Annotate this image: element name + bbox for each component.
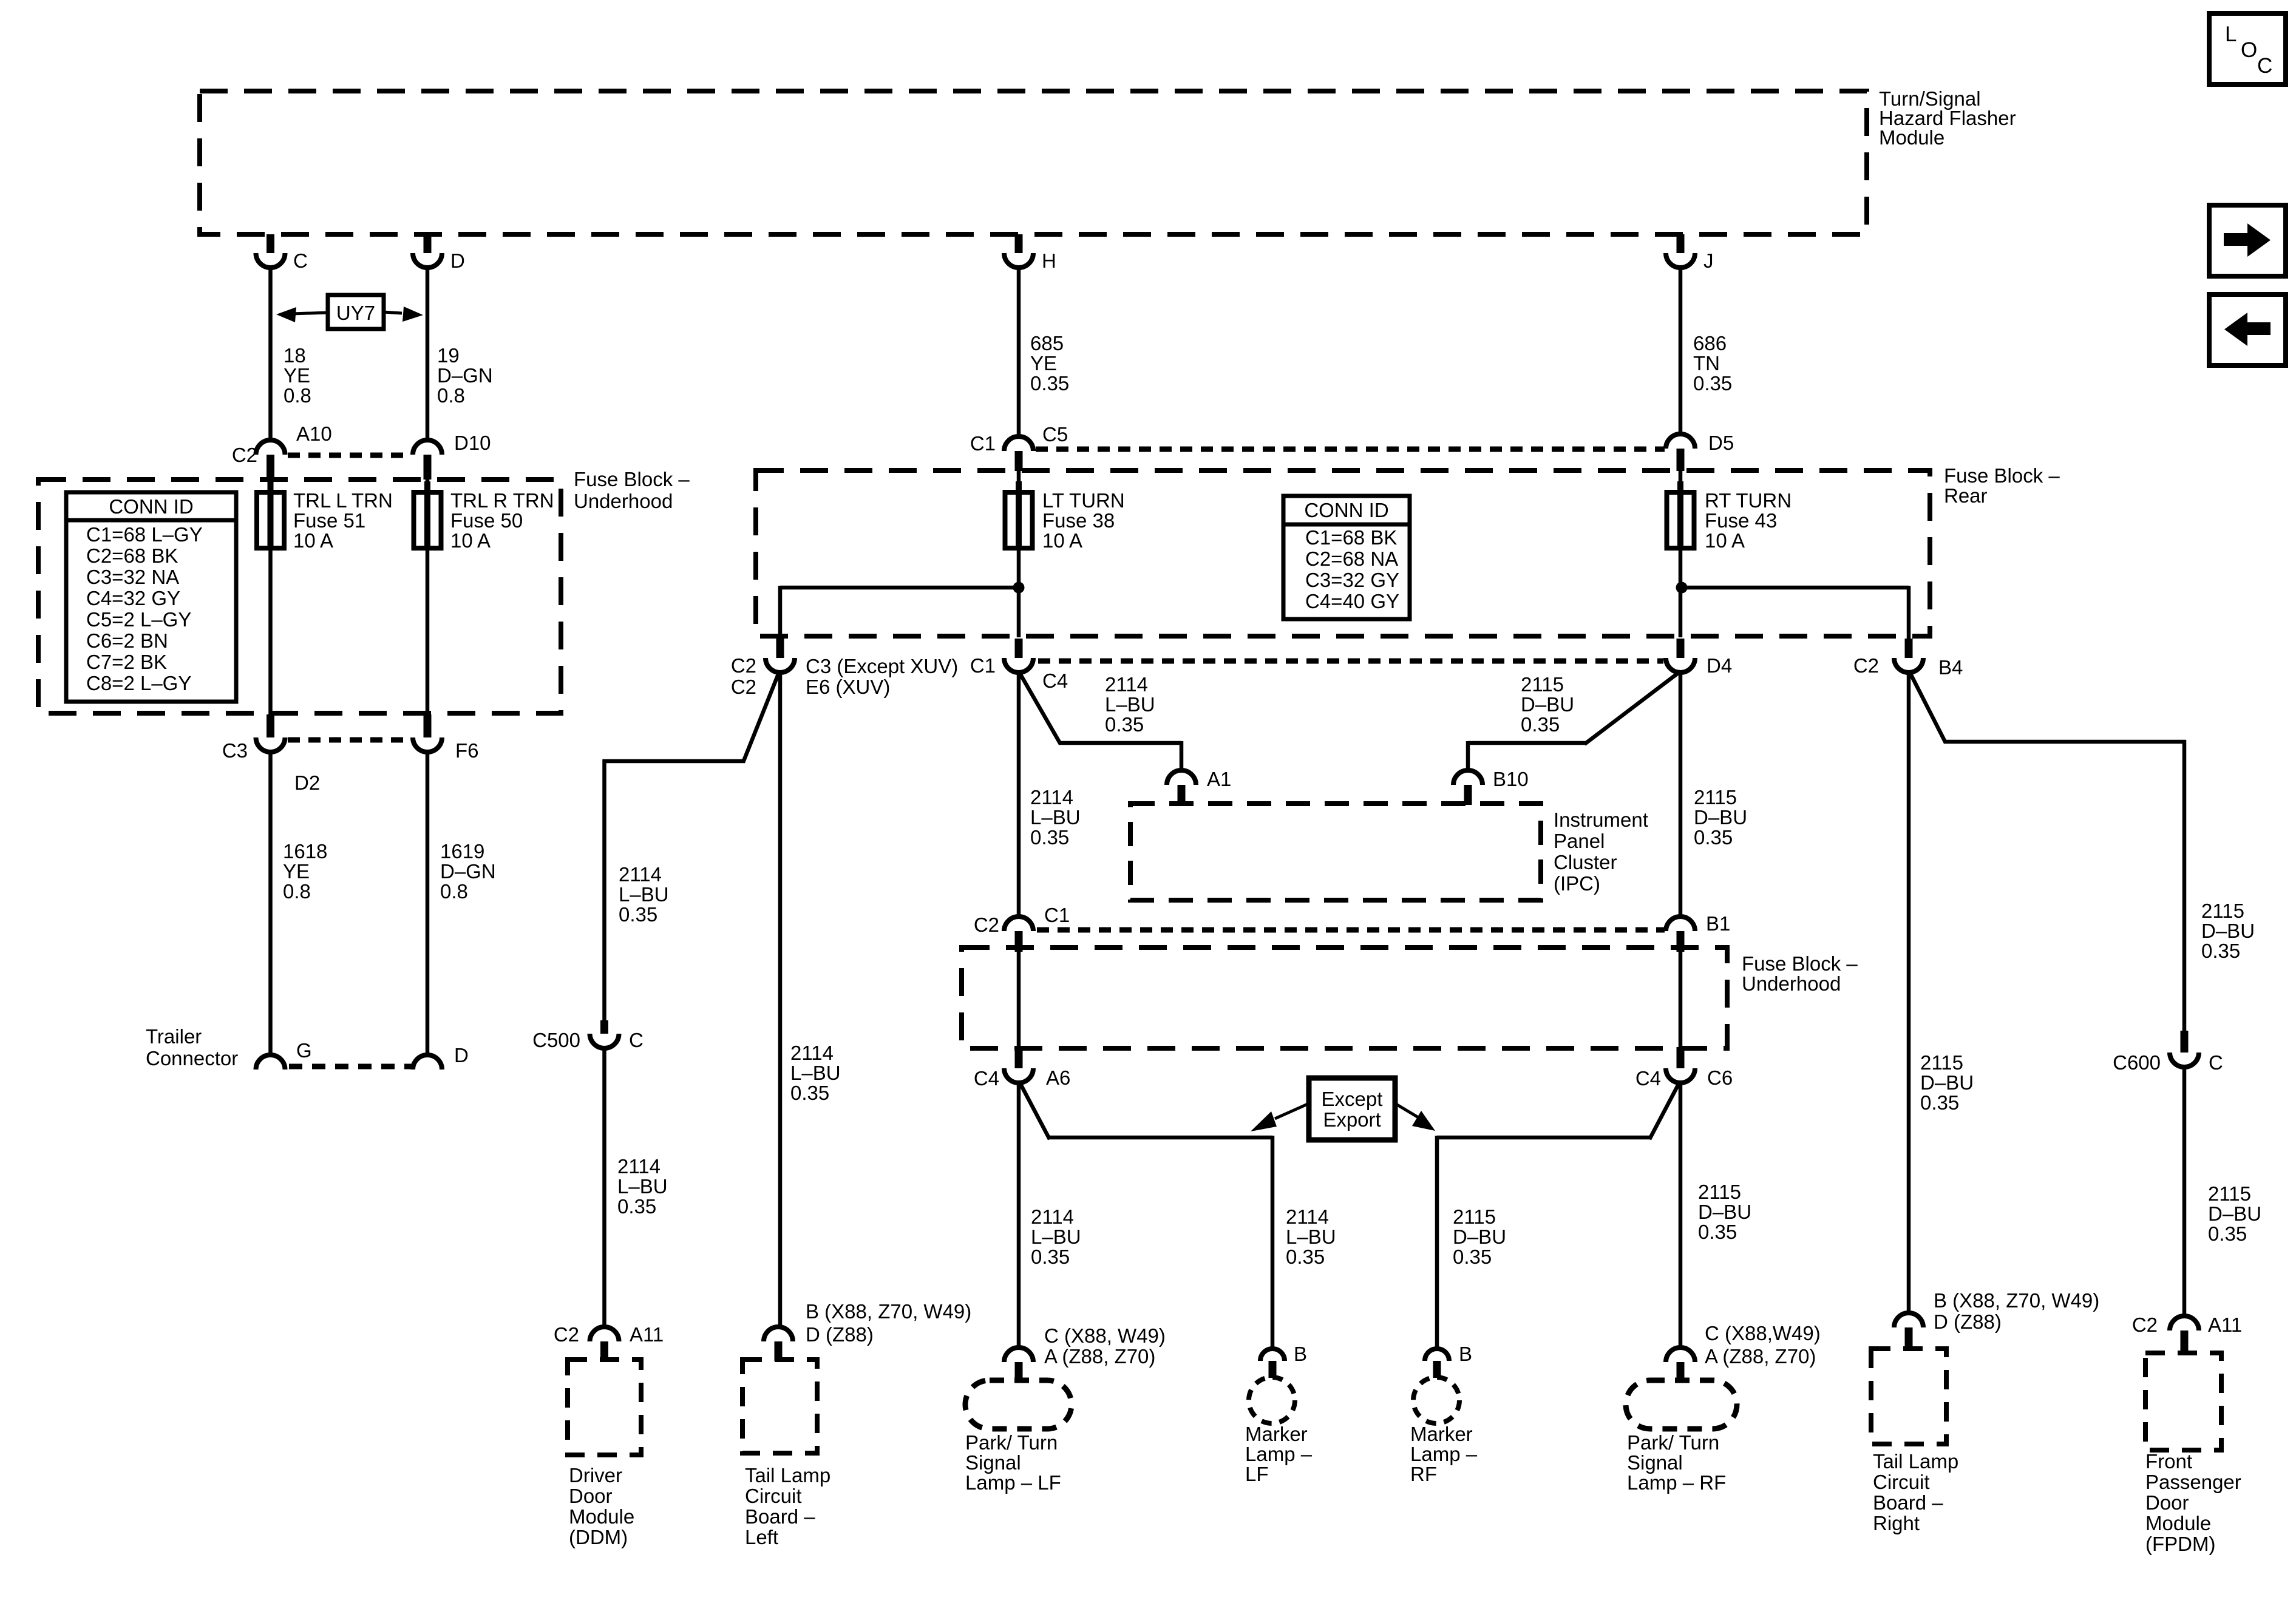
wire B4 slant to C600 column bbox=[1910, 673, 1946, 743]
svg-text:C5=2 L–GY: C5=2 L–GY bbox=[86, 608, 191, 631]
svg-text:L–BU: L–BU bbox=[617, 1175, 668, 1198]
connector C2/A11 (FPDM) bbox=[2170, 1316, 2199, 1331]
svg-text:Passenger: Passenger bbox=[2145, 1471, 2241, 1493]
svg-text:C4=32 GY: C4=32 GY bbox=[86, 587, 180, 609]
svg-text:C2: C2 bbox=[974, 914, 999, 936]
connector C4/C6 bbox=[1677, 1047, 1685, 1068]
svg-text:C: C bbox=[293, 249, 308, 272]
fuse block underhood box (left) bbox=[38, 480, 561, 713]
wire C2 straight to tail lamp left bbox=[778, 673, 783, 1328]
left-turn arrow bbox=[2224, 313, 2271, 346]
connector line G-D bbox=[289, 1064, 412, 1070]
connector C3/D2 bbox=[267, 714, 274, 737]
svg-text:D (Z88): D (Z88) bbox=[1934, 1310, 2002, 1333]
svg-text:Park/ Turn: Park/ Turn bbox=[1627, 1431, 1719, 1454]
svg-text:D5: D5 bbox=[1708, 432, 1734, 454]
svg-text:L–BU: L–BU bbox=[1105, 693, 1155, 716]
svg-text:D: D bbox=[450, 249, 465, 272]
wire C600 to FPDM bbox=[2182, 1067, 2187, 1317]
svg-text:B4: B4 bbox=[1938, 656, 1963, 679]
svg-text:Circuit: Circuit bbox=[1873, 1471, 1930, 1493]
svg-text:0.35: 0.35 bbox=[1920, 1091, 1959, 1114]
svg-text:A (Z88, Z70): A (Z88, Z70) bbox=[1705, 1345, 1816, 1368]
wire H inside mid fuse block bbox=[1017, 951, 1021, 1047]
svg-text:Module: Module bbox=[2145, 1512, 2211, 1534]
CONN ID table (rear) bbox=[1283, 496, 1410, 619]
svg-text:Lamp – RF: Lamp – RF bbox=[1627, 1471, 1726, 1494]
connector C2/D10 bbox=[413, 440, 442, 455]
wire D upper segment bbox=[426, 268, 430, 440]
svg-text:D–BU: D–BU bbox=[1453, 1225, 1506, 1248]
svg-text:0.35: 0.35 bbox=[619, 903, 657, 926]
wire C6 to marker RF bbox=[1649, 1083, 1679, 1139]
connector C1/C5 bbox=[1004, 436, 1033, 451]
svg-text:RF: RF bbox=[1410, 1463, 1437, 1485]
connector A1 bbox=[1167, 770, 1196, 785]
fuse 43 RT TURN bbox=[1667, 492, 1694, 548]
fuse block rear box bbox=[756, 470, 1930, 636]
svg-text:D–BU: D–BU bbox=[1694, 806, 1747, 829]
wire through fuse 43 bbox=[1679, 471, 1683, 637]
connector C2/B4 (rear) bbox=[1905, 639, 1913, 658]
svg-text:B (X88, Z70, W49): B (X88, Z70, W49) bbox=[1934, 1289, 2099, 1312]
connector C4/A6 bbox=[1015, 1047, 1023, 1068]
svg-text:RT TURN: RT TURN bbox=[1705, 489, 1792, 512]
svg-text:10 A: 10 A bbox=[450, 529, 491, 552]
svg-text:2114: 2114 bbox=[1105, 673, 1148, 696]
svg-text:B10: B10 bbox=[1493, 768, 1529, 790]
svg-text:Signal: Signal bbox=[1627, 1451, 1683, 1474]
svg-text:Except: Except bbox=[1322, 1088, 1383, 1110]
svg-text:C6=2 BN: C6=2 BN bbox=[86, 629, 168, 652]
svg-text:C (X88,W49): C (X88,W49) bbox=[1705, 1322, 1821, 1344]
wire C4 to A1 bbox=[1019, 671, 1061, 744]
svg-text:Connector: Connector bbox=[146, 1047, 238, 1070]
svg-text:Tail Lamp: Tail Lamp bbox=[745, 1464, 830, 1486]
svg-text:J: J bbox=[1703, 249, 1714, 272]
svg-text:Fuse Block –: Fuse Block – bbox=[574, 468, 690, 490]
svg-text:D–BU: D–BU bbox=[1920, 1071, 1974, 1094]
svg-text:Door: Door bbox=[569, 1485, 613, 1507]
svg-text:A11: A11 bbox=[2208, 1314, 2242, 1336]
wire A6 to park/turn LF bbox=[1017, 1083, 1021, 1349]
fuse 51 TRL L TRN bbox=[257, 492, 284, 548]
svg-text:2115: 2115 bbox=[1920, 1051, 1963, 1074]
svg-text:Marker: Marker bbox=[1245, 1423, 1308, 1445]
svg-text:CONN ID: CONN ID bbox=[1304, 499, 1388, 521]
svg-text:Module: Module bbox=[1879, 126, 1944, 149]
connector park/turn RF bbox=[1666, 1347, 1695, 1362]
svg-text:C: C bbox=[629, 1029, 644, 1051]
svg-text:C4: C4 bbox=[1042, 670, 1068, 692]
svg-text:(IPC): (IPC) bbox=[1554, 872, 1600, 895]
svg-text:D (Z88): D (Z88) bbox=[806, 1323, 874, 1346]
svg-text:B (X88, Z70, W49): B (X88, Z70, W49) bbox=[806, 1300, 971, 1323]
marker lamp RF outline bbox=[1413, 1377, 1459, 1423]
junction on fuse 38 output bbox=[1013, 582, 1025, 594]
connector C2/C1 (underhood mid) bbox=[1004, 917, 1033, 931]
svg-text:Underhood: Underhood bbox=[1742, 972, 1841, 995]
svg-text:C3: C3 bbox=[222, 739, 248, 762]
module pin C connector bbox=[267, 234, 274, 253]
Except Export right arrow bbox=[1395, 1103, 1419, 1118]
svg-text:C (X88, W49): C (X88, W49) bbox=[1044, 1324, 1166, 1347]
svg-text:Marker: Marker bbox=[1410, 1423, 1473, 1445]
connector B10 bbox=[1453, 770, 1483, 785]
fuse 38 LT TURN bbox=[1005, 492, 1033, 548]
UY7 right arrow bbox=[384, 312, 402, 313]
svg-text:Fuse 50: Fuse 50 bbox=[450, 509, 523, 532]
svg-text:C8=2 L–GY: C8=2 L–GY bbox=[86, 672, 191, 694]
connector line C5-D5 bbox=[1036, 447, 1665, 452]
svg-text:Fuse 51: Fuse 51 bbox=[293, 509, 365, 532]
IPC box bbox=[1130, 804, 1541, 900]
svg-text:0.35: 0.35 bbox=[1453, 1246, 1492, 1268]
svg-text:B1: B1 bbox=[1706, 912, 1730, 935]
svg-text:C2: C2 bbox=[2132, 1314, 2158, 1336]
svg-text:Signal: Signal bbox=[965, 1451, 1021, 1474]
connector park/turn LF bbox=[1004, 1347, 1033, 1362]
svg-text:0.8: 0.8 bbox=[437, 384, 465, 407]
wire C upper segment bbox=[268, 268, 273, 440]
svg-text:C1: C1 bbox=[1044, 904, 1070, 926]
connector C2/A10 bbox=[256, 440, 285, 455]
wire J inside mid fuse block bbox=[1679, 951, 1683, 1047]
svg-text:A (Z88, Z70): A (Z88, Z70) bbox=[1044, 1345, 1155, 1368]
svg-text:0.35: 0.35 bbox=[617, 1195, 656, 1218]
svg-text:D–BU: D–BU bbox=[2208, 1202, 2261, 1225]
svg-text:C2: C2 bbox=[1853, 654, 1879, 677]
svg-text:D–BU: D–BU bbox=[2201, 920, 2255, 942]
svg-text:L–BU: L–BU bbox=[1030, 806, 1081, 829]
svg-text:Underhood: Underhood bbox=[574, 490, 673, 512]
svg-text:Rear: Rear bbox=[1944, 484, 1988, 507]
connector line A10-D10 bbox=[288, 453, 412, 458]
svg-text:L–BU: L–BU bbox=[790, 1062, 841, 1084]
svg-text:Cluster: Cluster bbox=[1554, 851, 1617, 873]
park/turn lamp RF outline bbox=[1626, 1380, 1737, 1429]
svg-text:2114: 2114 bbox=[790, 1042, 834, 1064]
svg-text:0.35: 0.35 bbox=[1698, 1221, 1737, 1243]
svg-text:C2=68 BK: C2=68 BK bbox=[86, 544, 178, 567]
svg-text:Module: Module bbox=[569, 1505, 634, 1528]
svg-text:Fuse 38: Fuse 38 bbox=[1042, 509, 1115, 532]
wire 1618 to trailer bbox=[268, 752, 273, 1056]
svg-text:C1: C1 bbox=[970, 654, 996, 677]
svg-text:Front: Front bbox=[2145, 1450, 2192, 1473]
svg-text:Panel: Panel bbox=[1554, 830, 1605, 852]
connector C600/C bbox=[2181, 1031, 2189, 1053]
wire 1619 to trailer bbox=[426, 752, 430, 1056]
svg-text:2114: 2114 bbox=[619, 863, 662, 886]
svg-text:2114: 2114 bbox=[1286, 1205, 1329, 1228]
connector line C1-B1 bbox=[1037, 927, 1665, 933]
svg-text:0.35: 0.35 bbox=[1521, 713, 1560, 736]
svg-text:YE: YE bbox=[1030, 352, 1057, 375]
LOC legend box bbox=[2209, 13, 2286, 84]
wire through fuse 50 bbox=[426, 480, 430, 714]
wire H upper segment bbox=[1017, 268, 1021, 436]
svg-text:C500: C500 bbox=[532, 1029, 580, 1051]
connector line C3-F6 bbox=[288, 737, 412, 743]
UY7 option box bbox=[328, 295, 384, 329]
svg-text:10 A: 10 A bbox=[1042, 529, 1082, 552]
svg-text:C6: C6 bbox=[1707, 1066, 1733, 1089]
svg-text:0.35: 0.35 bbox=[1030, 372, 1069, 395]
svg-text:C: C bbox=[2257, 54, 2272, 78]
junction on fuse 43 output bbox=[1676, 582, 1688, 594]
svg-text:2115: 2115 bbox=[2201, 900, 2244, 922]
svg-text:L–BU: L–BU bbox=[1031, 1225, 1081, 1248]
CONN ID table (underhood) bbox=[66, 492, 236, 702]
svg-text:Driver: Driver bbox=[569, 1464, 622, 1486]
svg-text:B: B bbox=[1459, 1343, 1472, 1365]
svg-text:Right: Right bbox=[1873, 1512, 1920, 1534]
UY7 left arrow bbox=[291, 313, 328, 314]
svg-text:A11: A11 bbox=[630, 1323, 664, 1346]
right-turn arrow box bbox=[2209, 205, 2286, 276]
svg-text:C2: C2 bbox=[731, 654, 756, 677]
svg-text:C7=2 BK: C7=2 BK bbox=[86, 651, 167, 673]
svg-text:TRL R TRN: TRL R TRN bbox=[450, 489, 554, 512]
connector tail lamp left bbox=[764, 1327, 793, 1341]
svg-text:C2=68 NA: C2=68 NA bbox=[1305, 547, 1398, 570]
svg-text:C: C bbox=[2209, 1051, 2223, 1074]
connector D5 bbox=[1666, 434, 1695, 449]
svg-text:G: G bbox=[296, 1039, 312, 1062]
svg-text:0.35: 0.35 bbox=[1105, 713, 1144, 736]
svg-text:Fuse Block –: Fuse Block – bbox=[1742, 952, 1858, 975]
svg-text:LF: LF bbox=[1245, 1463, 1269, 1485]
svg-text:Park/ Turn: Park/ Turn bbox=[965, 1431, 1058, 1454]
svg-text:2114: 2114 bbox=[1031, 1205, 1074, 1228]
svg-text:L–BU: L–BU bbox=[1286, 1225, 1336, 1248]
wire through fuse 51 bbox=[268, 480, 273, 714]
svg-text:Circuit: Circuit bbox=[745, 1485, 802, 1507]
svg-text:686: 686 bbox=[1693, 332, 1727, 354]
Except Export left arrow bbox=[1275, 1103, 1309, 1119]
svg-text:B: B bbox=[1294, 1343, 1307, 1365]
DDM box bbox=[568, 1360, 641, 1455]
connector F6 bbox=[424, 714, 432, 737]
tail lamp circuit board left box bbox=[742, 1360, 817, 1453]
svg-text:685: 685 bbox=[1030, 332, 1064, 354]
connector C2/A11 (DDM) bbox=[590, 1327, 619, 1341]
svg-text:1619: 1619 bbox=[440, 840, 484, 863]
svg-text:Fuse 43: Fuse 43 bbox=[1705, 509, 1777, 532]
marker lamp LF outline bbox=[1249, 1377, 1295, 1423]
svg-text:0.35: 0.35 bbox=[1030, 826, 1069, 849]
wire B4 straight to tail lamp right bbox=[1907, 673, 1911, 1314]
svg-text:H: H bbox=[1042, 249, 1056, 272]
svg-text:O: O bbox=[2241, 38, 2257, 62]
svg-text:L–BU: L–BU bbox=[619, 883, 669, 906]
svg-text:Door: Door bbox=[2145, 1491, 2189, 1514]
svg-text:2115: 2115 bbox=[1694, 786, 1737, 808]
svg-text:L: L bbox=[2225, 22, 2237, 46]
svg-text:C3=32 NA: C3=32 NA bbox=[86, 566, 179, 588]
svg-text:C2: C2 bbox=[731, 676, 756, 698]
svg-text:Left: Left bbox=[745, 1526, 778, 1548]
module box: Turn/Signal Hazard Flasher Module bbox=[200, 91, 1867, 234]
svg-text:0.35: 0.35 bbox=[1031, 1246, 1070, 1268]
svg-text:Fuse Block –: Fuse Block – bbox=[1944, 464, 2060, 487]
park/turn lamp LF outline bbox=[965, 1380, 1072, 1429]
svg-text:YE: YE bbox=[284, 364, 310, 387]
svg-text:C4: C4 bbox=[974, 1067, 999, 1090]
connector marker RF bbox=[1425, 1349, 1449, 1361]
svg-text:C2: C2 bbox=[232, 444, 257, 466]
svg-text:C600: C600 bbox=[2113, 1051, 2161, 1074]
svg-text:E6 (XUV): E6 (XUV) bbox=[806, 676, 890, 698]
svg-text:C1=68 L–GY: C1=68 L–GY bbox=[86, 523, 203, 546]
svg-text:2115: 2115 bbox=[1698, 1181, 1741, 1203]
FPDM box bbox=[2145, 1353, 2221, 1450]
svg-text:0.35: 0.35 bbox=[2201, 940, 2240, 962]
svg-text:Board –: Board – bbox=[1873, 1491, 1943, 1514]
svg-text:A1: A1 bbox=[1207, 768, 1231, 790]
svg-text:D–GN: D–GN bbox=[437, 364, 493, 387]
svg-text:D2: D2 bbox=[294, 771, 320, 794]
svg-text:D: D bbox=[454, 1044, 469, 1066]
svg-text:(FPDM): (FPDM) bbox=[2145, 1533, 2215, 1555]
tail lamp circuit board right box bbox=[1871, 1349, 1946, 1444]
connector line C4-D4 bbox=[1038, 659, 1663, 664]
svg-text:0.8: 0.8 bbox=[283, 880, 311, 903]
connector C1/C4 (rear) bbox=[1015, 639, 1023, 658]
svg-text:D–GN: D–GN bbox=[440, 860, 496, 883]
wire H mid segment bbox=[1017, 671, 1021, 917]
svg-text:2114: 2114 bbox=[1030, 786, 1073, 808]
svg-text:A6: A6 bbox=[1046, 1066, 1070, 1089]
svg-text:0.35: 0.35 bbox=[2208, 1222, 2247, 1245]
wire C500 to DDM bbox=[602, 1048, 606, 1328]
svg-text:10 A: 10 A bbox=[1705, 529, 1745, 552]
svg-text:2115: 2115 bbox=[2208, 1182, 2251, 1205]
wire J upper segment bbox=[1679, 268, 1683, 434]
svg-text:Lamp –: Lamp – bbox=[1410, 1443, 1478, 1465]
wire A6 to marker LF bbox=[1020, 1083, 1050, 1139]
trailer connector pin D bbox=[413, 1055, 442, 1070]
svg-text:A10: A10 bbox=[296, 422, 332, 445]
svg-text:LT TURN: LT TURN bbox=[1042, 489, 1125, 512]
branch wire to C2 (left) bbox=[780, 586, 1019, 590]
svg-text:Board –: Board – bbox=[745, 1505, 815, 1528]
wire J mid segment bbox=[1679, 671, 1683, 917]
svg-text:C1: C1 bbox=[970, 432, 996, 455]
svg-text:C3 (Except XUV): C3 (Except XUV) bbox=[806, 655, 958, 677]
svg-text:D–BU: D–BU bbox=[1698, 1201, 1751, 1223]
svg-text:TN: TN bbox=[1693, 352, 1720, 375]
svg-text:C3=32 GY: C3=32 GY bbox=[1305, 569, 1399, 591]
svg-text:0.35: 0.35 bbox=[790, 1082, 829, 1104]
svg-text:18: 18 bbox=[284, 344, 306, 367]
svg-text:1618: 1618 bbox=[283, 840, 327, 863]
branch wire to B4 (right) bbox=[1682, 586, 1909, 590]
svg-text:Trailer: Trailer bbox=[146, 1025, 202, 1048]
svg-text:0.35: 0.35 bbox=[1286, 1246, 1325, 1268]
svg-text:C2: C2 bbox=[554, 1323, 579, 1346]
svg-text:D–BU: D–BU bbox=[1521, 693, 1574, 716]
svg-text:0.35: 0.35 bbox=[1694, 826, 1733, 849]
svg-text:Lamp – LF: Lamp – LF bbox=[965, 1471, 1061, 1494]
svg-text:TRL L TRN: TRL L TRN bbox=[293, 489, 393, 512]
svg-text:C5: C5 bbox=[1042, 423, 1068, 446]
wire through fuse 38 bbox=[1017, 471, 1021, 637]
svg-text:0.8: 0.8 bbox=[284, 384, 311, 407]
svg-text:C1=68 BK: C1=68 BK bbox=[1305, 526, 1397, 549]
module pin H connector bbox=[1015, 234, 1023, 253]
wire C2 slant to C500 column bbox=[743, 673, 779, 762]
svg-text:Tail Lamp: Tail Lamp bbox=[1873, 1450, 1958, 1473]
svg-text:Instrument: Instrument bbox=[1554, 808, 1648, 831]
connector D4 (rear) bbox=[1677, 639, 1685, 658]
svg-text:2115: 2115 bbox=[1521, 673, 1564, 696]
connector C500/C bbox=[600, 1020, 608, 1034]
connector marker LF bbox=[1260, 1349, 1285, 1361]
wire C6 to park/turn RF bbox=[1679, 1083, 1683, 1349]
svg-text:(DDM): (DDM) bbox=[569, 1526, 628, 1548]
svg-text:Lamp –: Lamp – bbox=[1245, 1443, 1313, 1465]
svg-text:2114: 2114 bbox=[617, 1155, 661, 1178]
svg-text:D4: D4 bbox=[1707, 654, 1732, 677]
svg-text:YE: YE bbox=[283, 860, 310, 883]
module pin J connector bbox=[1677, 234, 1685, 253]
connector B1 bbox=[1666, 917, 1695, 931]
svg-text:Export: Export bbox=[1323, 1108, 1381, 1131]
svg-text:C4: C4 bbox=[1635, 1067, 1661, 1090]
svg-text:0.8: 0.8 bbox=[440, 880, 468, 903]
wire D4 to B10 bbox=[1584, 671, 1680, 744]
left-turn arrow box bbox=[2209, 294, 2286, 365]
svg-text:D10: D10 bbox=[454, 432, 491, 454]
connector tail lamp right bbox=[1894, 1313, 1923, 1327]
fuse block underhood box (mid) bbox=[962, 947, 1727, 1048]
svg-text:F6: F6 bbox=[455, 739, 479, 762]
connector C2/C2 (rear) bbox=[776, 639, 784, 658]
svg-text:CONN ID: CONN ID bbox=[109, 495, 193, 518]
Except Export box bbox=[1309, 1078, 1395, 1140]
svg-text:10 A: 10 A bbox=[293, 529, 333, 552]
fuse 50 TRL R TRN bbox=[414, 492, 441, 548]
svg-text:UY7: UY7 bbox=[336, 302, 375, 324]
module pin D connector bbox=[424, 234, 432, 253]
svg-text:C4=40 GY: C4=40 GY bbox=[1305, 590, 1399, 612]
svg-text:0.35: 0.35 bbox=[1693, 372, 1732, 395]
trailer connector pin G bbox=[256, 1055, 285, 1070]
svg-text:19: 19 bbox=[437, 344, 460, 367]
right-turn arrow bbox=[2224, 223, 2271, 257]
svg-text:2115: 2115 bbox=[1453, 1205, 1496, 1228]
